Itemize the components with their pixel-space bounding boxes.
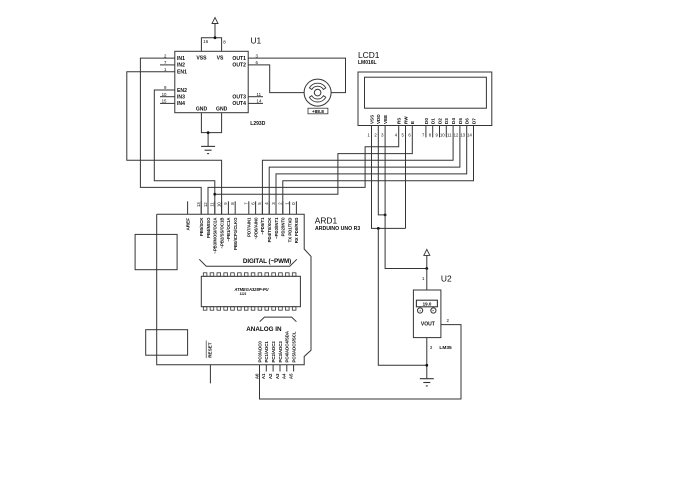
svg-text:RX PD0/RXD: RX PD0/RXD [294, 218, 299, 244]
svg-text:~PB1/OC1A: ~PB1/OC1A [226, 218, 231, 242]
svg-text:RESET: RESET [208, 342, 213, 358]
ARD1 analog pin numbers A0..A5 [254, 373, 293, 379]
U2 VOUT label [421, 321, 435, 327]
pin stub U1 OUT4 [248, 102, 263, 104]
U1 pin name labels [177, 56, 246, 113]
U1 designator label [251, 36, 262, 46]
wire LCD VSS to gnd rail [372, 126, 406, 229]
svg-text:ARD1: ARD1 [315, 215, 338, 225]
pin stub LCD D3 [445, 126, 447, 138]
svg-text:RW: RW [403, 116, 408, 124]
node VDD/VEE junction [384, 214, 387, 217]
svg-text:PB0/ICP1/CLKO: PB0/ICP1/CLKO [233, 217, 238, 250]
svg-text:PC2/ADC2: PC2/ADC2 [271, 341, 276, 363]
U2 designator label [441, 273, 452, 283]
wire U1 OUT2 (pin6) to motor - [248, 65, 304, 93]
svg-text:VOUT: VOUT [421, 321, 435, 327]
svg-text:14: 14 [467, 132, 472, 137]
svg-text:~PD5/T1: ~PD5/T1 [260, 217, 265, 235]
Arduino ARD1 board outline [157, 214, 311, 364]
LCD pin numbers 1-14 [368, 132, 473, 137]
wire ARD1 A0 to U2 VOUT [260, 325, 462, 399]
ground below U1 [201, 146, 215, 153]
ARD1 value label ARDUINO UNO R3 [315, 226, 360, 232]
svg-text:11: 11 [257, 92, 262, 97]
svg-text:16: 16 [203, 39, 208, 44]
svg-text:GND: GND [216, 107, 228, 113]
svg-text:TX PD1/TXD: TX PD1/TXD [287, 218, 292, 243]
svg-text:VSS: VSS [369, 115, 374, 124]
svg-text:~PB3/MOSI/OC2A: ~PB3/MOSI/OC2A [213, 218, 218, 254]
svg-text:14: 14 [257, 99, 262, 104]
svg-text:13: 13 [460, 132, 465, 137]
LCD pin name labels [369, 114, 476, 124]
Arduino USB connector [135, 234, 177, 269]
svg-text:13: 13 [196, 202, 201, 207]
svg-text:IN4: IN4 [177, 101, 185, 107]
node junction E wire on ARD1 pin11 [213, 193, 216, 196]
pin stub ARD1 RESET [209, 365, 211, 384]
wire LCD RW down to gnd rail [405, 126, 407, 229]
ATMEGA328P chip [201, 273, 300, 310]
U1 left pin numbers 2,7,1,9,10,15 [162, 53, 167, 103]
svg-text:1121: 1121 [240, 292, 247, 296]
node U1 gnd junction [207, 131, 210, 134]
svg-text:U1: U1 [251, 36, 262, 46]
svg-text:15: 15 [162, 99, 167, 104]
svg-text:GND: GND [196, 107, 208, 113]
svg-text:D4: D4 [451, 118, 456, 124]
U2 temperature display 19.0 [416, 300, 437, 307]
IC U1 L293D body [175, 51, 248, 112]
svg-text:L293D: L293D [250, 121, 265, 127]
wire power junction to U2 pin1 [426, 269, 428, 291]
svg-text:D2: D2 [437, 118, 442, 124]
LCD LM016L body [358, 72, 492, 126]
svg-text:PB5/SCK: PB5/SCK [199, 217, 204, 237]
pin stub U1 OUT3 [248, 96, 263, 98]
node U2 gnd junction [425, 364, 428, 367]
svg-text:19.0: 19.0 [423, 302, 432, 307]
svg-text:~PD3/INT1: ~PD3/INT1 [274, 217, 279, 239]
svg-text:A0: A0 [254, 373, 259, 379]
ARD1 analog pin stubs A0..A5 [266, 365, 293, 372]
svg-text:VS: VS [217, 56, 224, 62]
svg-text:ARDUINO UNO R3: ARDUINO UNO R3 [315, 226, 360, 232]
svg-text:10: 10 [162, 92, 167, 97]
svg-text:D7: D7 [471, 118, 476, 124]
svg-text:AREF: AREF [186, 218, 191, 231]
U2 value label LM35 [439, 345, 452, 351]
svg-text:OUT2: OUT2 [232, 63, 246, 69]
pin stub U1 IN2 [160, 64, 175, 66]
svg-text:OUT1: OUT1 [232, 56, 246, 62]
wire U1 OUT1 (pin3) to motor + [248, 58, 345, 93]
svg-text:D6: D6 [465, 118, 470, 124]
wire LCD D7 to ARD1 pin2 [283, 126, 474, 215]
svg-text:VSS: VSS [196, 56, 207, 62]
wire power to U1 VSS/VS bracket [201, 38, 221, 52]
wire LCD D6 to ARD1 pin3 [276, 126, 467, 215]
svg-text:A4: A4 [282, 373, 287, 379]
Arduino power jack [146, 330, 188, 356]
pin stub U1 IN4 [160, 102, 175, 104]
U1 value label L293D [250, 121, 265, 127]
ARD1 analog pin name labels [257, 331, 296, 363]
motor rpm display +88.8 [308, 108, 328, 115]
svg-text:PC4/ADC4/SDA: PC4/ADC4/SDA [285, 331, 290, 363]
RESET label with overbar [206, 341, 212, 359]
svg-text:PD7/AIN1: PD7/AIN1 [247, 217, 252, 237]
U2 pin number 1 [422, 276, 425, 281]
svg-text:IN2: IN2 [177, 63, 185, 69]
wire U1 GND pins join [201, 113, 221, 147]
svg-text:~PB2/SS/OC1B: ~PB2/SS/OC1B [219, 218, 224, 249]
svg-text:A2: A2 [268, 373, 273, 379]
wire LCD VDD jog to VEE line [378, 126, 385, 215]
svg-text:RS: RS [397, 118, 402, 124]
ARD1 digital pin name labels [199, 217, 299, 254]
ANALOG IN label [246, 326, 282, 333]
pin stub LCD D2 [439, 126, 441, 138]
wire U1 EN2 (pin9) to ARD1 pin11 [154, 90, 215, 214]
svg-text:DIGITAL (~PWM): DIGITAL (~PWM) [243, 258, 291, 265]
wire U1 IN1 (pin2) to ARD1 pin13 [140, 58, 201, 214]
svg-text:A5: A5 [288, 373, 293, 379]
pin stub U1 IN3 [160, 96, 175, 98]
pin stub LCD D1 [432, 126, 434, 138]
svg-text:EN1: EN1 [177, 70, 187, 76]
svg-text:U2: U2 [441, 273, 452, 283]
svg-text:+88.8: +88.8 [312, 109, 324, 115]
sensor U2 LM35 body [413, 290, 441, 338]
wire LCD RS to ARD1 pin12 [208, 126, 399, 215]
svg-text:D3: D3 [444, 118, 449, 124]
svg-text:OUT4: OUT4 [232, 101, 246, 107]
svg-text:LCD1: LCD1 [358, 50, 380, 60]
node power junction on bracket [214, 36, 217, 39]
svg-text:12: 12 [203, 202, 208, 207]
svg-text:OUT3: OUT3 [232, 95, 246, 101]
pin number 16 (U1 VSS) [203, 39, 208, 44]
U2 pin number 2 [447, 318, 450, 323]
svg-text:PC5/ADC5/SCL: PC5/ADC5/SCL [291, 331, 296, 362]
U1 right pin numbers 3,6,11,14 [256, 53, 262, 103]
ARD1 digital pin numbers rotated [196, 202, 296, 207]
svg-text:VEE: VEE [383, 115, 388, 124]
svg-text:LM016L: LM016L [358, 60, 377, 66]
ARD1 digital pin stubs 13..0 [201, 201, 296, 214]
svg-text:12: 12 [454, 132, 459, 137]
node U2 power junction [425, 267, 428, 270]
ARD1 designator label [315, 215, 338, 225]
svg-text:10: 10 [440, 132, 445, 137]
LCD display window [365, 77, 487, 108]
LCD1 designator label [358, 50, 380, 60]
svg-text:A3: A3 [275, 373, 280, 379]
svg-text:PB4/MISO: PB4/MISO [206, 217, 211, 238]
wire U1 EN1 (pin1) to ARD1 pin10 [127, 72, 222, 215]
svg-text:11: 11 [447, 132, 452, 137]
svg-text:11: 11 [210, 202, 215, 207]
U2 pin number 3 [430, 345, 433, 350]
U2 adjust buttons [418, 308, 437, 313]
LCD1 value label LM016L [358, 60, 377, 66]
wire LCD D5 to ARD1 pin4 [269, 126, 460, 215]
svg-text:PC1/ADC1: PC1/ADC1 [264, 341, 269, 363]
pin stub ARD1 AREF [187, 201, 189, 214]
power symbol U2 +5V [424, 249, 430, 268]
wire LCD E to ARD1 pin11 [215, 126, 412, 195]
AREF label [186, 218, 191, 231]
pin number 8 (U1 VS) [223, 40, 226, 45]
svg-text:PD2/INT0: PD2/INT0 [281, 217, 286, 236]
wire gnd drop to U2 ground [378, 228, 427, 365]
wire LCD D4 to ARD1 pin5 [262, 126, 453, 215]
svg-text:PC3/ADC3: PC3/ADC3 [278, 341, 283, 363]
power symbol U1 VCC [212, 18, 218, 38]
DIGITAL (~PWM) bracket [199, 259, 296, 266]
svg-text:PD4/T0/XCK: PD4/T0/XCK [267, 217, 272, 243]
svg-text:D1: D1 [431, 118, 436, 124]
wire LCD VEE to +5V rail [385, 126, 427, 269]
svg-text:IN3: IN3 [177, 95, 185, 101]
svg-text:PC0/ADC0: PC0/ADC0 [257, 341, 262, 363]
svg-text:IN1: IN1 [177, 56, 185, 62]
motor M1 [304, 79, 331, 106]
svg-text:LM35: LM35 [439, 345, 452, 351]
svg-text:VDD: VDD [376, 114, 381, 124]
svg-text:D5: D5 [458, 118, 463, 124]
DIGITAL (~PWM) label [243, 258, 291, 265]
svg-text:E: E [410, 121, 415, 124]
ground below U2 [420, 379, 434, 386]
svg-text:A1: A1 [261, 373, 266, 379]
svg-text:10: 10 [216, 202, 221, 207]
wire U2 pin3 to ground [426, 338, 428, 379]
svg-text:ANALOG IN: ANALOG IN [246, 326, 282, 333]
svg-text:D0: D0 [424, 118, 429, 124]
pin stub LCD D0 [425, 126, 427, 138]
svg-text:~PD6/AIN0: ~PD6/AIN0 [253, 217, 258, 239]
svg-text:EN2: EN2 [177, 88, 187, 94]
node gnd-drop junction [377, 227, 380, 230]
ANALOG IN bracket [260, 317, 297, 322]
